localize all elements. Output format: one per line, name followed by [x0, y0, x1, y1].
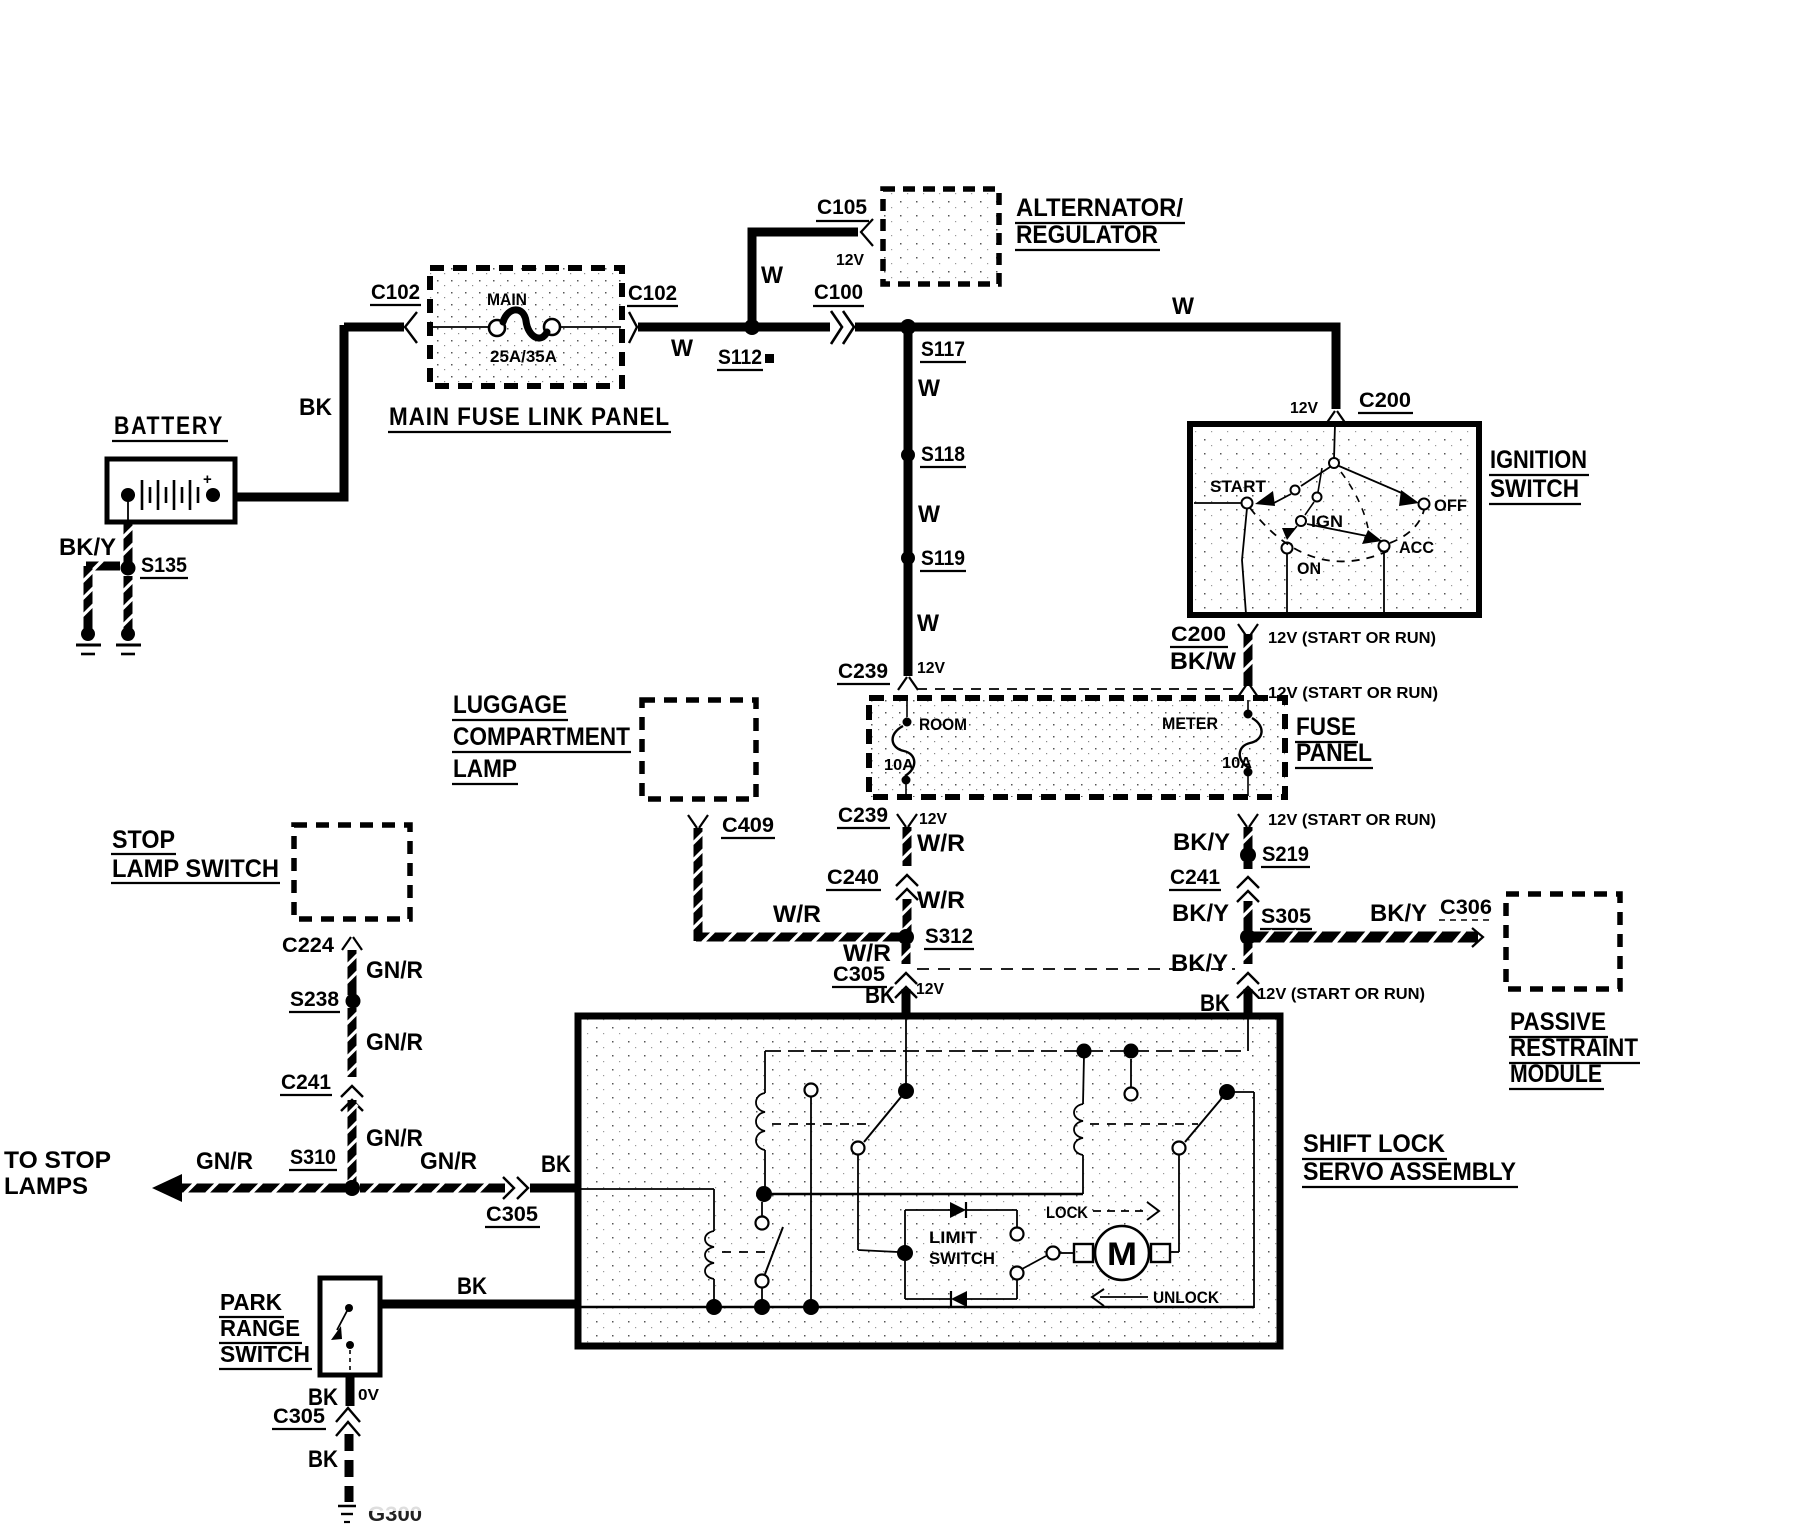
label 0V [358, 1387, 379, 1404]
label S312 [924, 925, 974, 949]
label C200 (lower) [1170, 623, 1228, 647]
svg-text:W: W [671, 335, 693, 362]
ground G300 [338, 1506, 356, 1522]
label MAIN (fuse name) [487, 290, 527, 309]
label BK/W [1170, 648, 1236, 675]
label BK (ground run) [308, 1446, 339, 1473]
splice S112 [744, 319, 760, 335]
svg-text:C102: C102 [371, 281, 420, 304]
label BK/Y [59, 534, 116, 561]
battery B1 [107, 459, 235, 522]
svg-text:BK/W: BK/W [1170, 648, 1236, 675]
label C409 [721, 814, 775, 838]
label C102 (right) [627, 282, 678, 306]
label S135 [140, 554, 188, 578]
svg-text:S219: S219 [1262, 843, 1309, 866]
svg-text:TO STOP: TO STOP [4, 1147, 111, 1174]
svg-text:C239: C239 [838, 804, 888, 827]
splice S118 [901, 448, 915, 462]
UNLOCK arrow [1092, 1288, 1220, 1307]
label C241 (right) [1169, 866, 1221, 890]
connector C239 (top) [898, 677, 918, 690]
label C102 (left) [370, 281, 421, 305]
svg-text:S119: S119 [921, 547, 965, 570]
label C239 (bottom) [837, 804, 890, 828]
connector C306 [1472, 928, 1483, 947]
wire BK dashed (C305 to G300) [345, 1434, 354, 1502]
label W/R (seg1) [917, 830, 965, 857]
svg-text:C241: C241 [1170, 866, 1220, 889]
svg-text:C306: C306 [1440, 896, 1492, 919]
svg-text:W/R: W/R [917, 830, 965, 857]
svg-text:C239: C239 [838, 660, 888, 683]
svg-text:PANEL: PANEL [1296, 739, 1372, 767]
svg-text:METER: METER [1162, 714, 1218, 733]
wire BK (C305 to servo box) [902, 989, 911, 1016]
label 25A/35A (fuse value) [490, 347, 557, 366]
svg-text:S118: S118 [921, 443, 965, 466]
label BK (middle col) [865, 982, 896, 1009]
label BK (below park switch) [308, 1384, 339, 1411]
svg-text:MODULE: MODULE [1510, 1060, 1602, 1088]
svg-text:FUSE: FUSE [1296, 713, 1356, 741]
wire W main run (fuse panel to S117) [638, 323, 912, 332]
ignition switch internals [1194, 424, 1467, 614]
ignition switch box [1190, 424, 1479, 615]
label 10A (meter) [1222, 755, 1252, 772]
svg-text:RESTRAINT: RESTRAINT [1510, 1034, 1638, 1062]
splice S238 [346, 994, 361, 1009]
label GN/R (seg1) [366, 957, 423, 984]
label C200 (top) [1358, 389, 1413, 413]
label W (seg1) [918, 375, 940, 402]
svg-text:BK: BK [308, 1446, 339, 1473]
shift lock servo assembly box [578, 1016, 1280, 1346]
connector C241 (left) [341, 1086, 363, 1111]
svg-text:START: START [1210, 477, 1267, 496]
splice S117 [900, 319, 916, 335]
wire GN/R (S238 to C241) [347, 1008, 358, 1077]
wire BK/Y battery to S135 [123, 522, 134, 562]
label C239 (top) [837, 660, 890, 684]
connector C305 (right col) [1237, 973, 1259, 998]
svg-text:W: W [761, 262, 783, 289]
servo internal: feed line right (from BK) [1247, 1019, 1249, 1051]
label C240 [826, 866, 881, 890]
svg-text:BK: BK [541, 1151, 572, 1178]
svg-text:10A: 10A [1222, 755, 1252, 772]
wire W branch to C105 [752, 232, 858, 323]
label BK/Y (seg3) [1171, 950, 1228, 977]
connector C305 (stop lamp run) [503, 1177, 528, 1199]
svg-text:GN/R: GN/R [366, 1125, 423, 1152]
svg-text:SWITCH: SWITCH [220, 1341, 310, 1367]
svg-text:IGNITION: IGNITION [1490, 446, 1587, 474]
svg-text:LIMIT: LIMIT [929, 1228, 978, 1247]
wire GN/R arrow to stop lamps [152, 1174, 345, 1202]
servo internal: horizontal wire coil1-coil3 [764, 1193, 1083, 1195]
svg-text:SWITCH: SWITCH [929, 1249, 995, 1268]
svg-text:MAIN: MAIN [487, 290, 527, 309]
connector C102 (left) [344, 312, 417, 343]
svg-text:BK: BK [865, 982, 896, 1009]
label FUSE PANEL [1295, 713, 1373, 768]
connector at fuse panel right output [1238, 814, 1258, 827]
wire W/R (S312 to C305) [901, 944, 912, 964]
park range switch internals [331, 1304, 354, 1374]
label W/R (seg2) [917, 887, 965, 914]
luggage compartment lamp box [642, 700, 756, 799]
junction rail/contact1 [803, 1299, 819, 1315]
wire W/R (C409 to S312) [693, 828, 901, 943]
label S310 [289, 1146, 337, 1170]
connector C305 (middle) [895, 973, 917, 998]
label C306 [1439, 896, 1492, 920]
svg-text:REGULATOR: REGULATOR [1016, 221, 1158, 249]
label BK/Y (seg2) [1172, 900, 1229, 927]
label STOP LAMP SWITCH [111, 826, 280, 883]
connector plane dashed line (C305 row) [917, 968, 1235, 970]
label S117 [920, 338, 966, 362]
svg-text:12V: 12V [917, 660, 945, 677]
wire BK/Y (S305 down) [1243, 944, 1254, 964]
alternator/regulator box [883, 189, 999, 284]
svg-text:W: W [918, 501, 940, 528]
label LUGGAGE COMPARTMENT LAMP [452, 691, 631, 784]
svg-text:BK: BK [299, 394, 333, 421]
wire BK/Y right ground branch [123, 576, 134, 630]
svg-text:UNLOCK: UNLOCK [1153, 1288, 1220, 1307]
svg-text:0V: 0V [358, 1387, 379, 1404]
junction rail/coil2 [706, 1299, 722, 1315]
connector C239 (bottom) [897, 814, 917, 827]
svg-text:LUGGAGE: LUGGAGE [453, 691, 567, 719]
label W (seg2) [918, 501, 940, 528]
svg-text:12V (START OR RUN): 12V (START OR RUN) [1257, 986, 1425, 1003]
label S119 [920, 547, 966, 571]
svg-text:C102: C102 [628, 282, 677, 305]
wire GN/R (C241 to S310) [347, 1100, 358, 1184]
relay1 mechanical link [772, 1123, 866, 1125]
park range switch box [320, 1278, 380, 1375]
svg-text:C100: C100 [814, 281, 863, 304]
splice S310 [344, 1180, 360, 1196]
label TO STOP LAMPS [4, 1147, 111, 1200]
label 12V (C239 bottom) [919, 811, 947, 828]
label GN/R (seg3) [366, 1125, 423, 1152]
connector C100 [831, 311, 854, 344]
splice S312 [898, 929, 914, 945]
svg-text:+: + [203, 471, 212, 488]
svg-text:S238: S238 [290, 988, 339, 1011]
label W (C105 branch) [761, 262, 783, 289]
label S305 [1260, 905, 1312, 929]
servo internal: top bus (dash-dot) [765, 1050, 1247, 1052]
label 12V (START OR RUN) upper [1268, 630, 1436, 647]
svg-text:BK/Y: BK/Y [1173, 829, 1230, 856]
label IGNITION SWITCH [1489, 446, 1589, 504]
relay2 mechanical link [722, 1251, 770, 1253]
switch 2 (lower relay contacts) [756, 1202, 784, 1307]
label BK/Y (seg1) [1173, 829, 1230, 856]
svg-text:BK/Y: BK/Y [1370, 900, 1427, 927]
label W/R (seg3) [843, 940, 891, 967]
label GN/R (arrow left) [196, 1148, 253, 1175]
switch 3 (right relay contacts) [1170, 1084, 1235, 1252]
LOCK arrow [1046, 1202, 1159, 1222]
svg-text:SHIFT LOCK: SHIFT LOCK [1303, 1130, 1445, 1158]
limit switch assembly [897, 1202, 1074, 1307]
wire BK (right col to servo box) [1244, 989, 1253, 1016]
relay coil 3 [1074, 1055, 1084, 1194]
wire BK (park switch down) [346, 1375, 355, 1406]
label S238 [289, 988, 340, 1012]
fuse METER 10A [1240, 700, 1262, 796]
label C105 [816, 196, 869, 221]
svg-text:12V: 12V [916, 981, 944, 998]
label W (seg3) [917, 610, 939, 637]
svg-text:12V: 12V [919, 811, 947, 828]
svg-text:ALTERNATOR/: ALTERNATOR/ [1016, 194, 1183, 222]
passive restraint module box [1506, 894, 1620, 989]
svg-text:GN/R: GN/R [196, 1148, 253, 1175]
relay3 mechanical link [1090, 1123, 1198, 1125]
label C305 (park switch) [272, 1405, 326, 1429]
relay coil 2 [581, 1189, 714, 1306]
svg-text:C200: C200 [1359, 389, 1411, 412]
connector C241 (right) [1237, 862, 1259, 902]
fuse ROOM 10A [893, 700, 915, 796]
svg-text:C305: C305 [486, 1203, 538, 1226]
svg-text:C224: C224 [282, 934, 334, 957]
svg-text:LAMP SWITCH: LAMP SWITCH [112, 855, 279, 883]
label BK/Y (to C306) [1370, 900, 1427, 927]
wire BK (C305 to servo box) [530, 1184, 582, 1193]
label 12V (START OR RUN) right col bottom [1257, 986, 1425, 1003]
svg-text:12V (START OR RUN): 12V (START OR RUN) [1268, 630, 1436, 647]
label BK (right col) [1200, 990, 1231, 1017]
label C305 (middle) [832, 963, 887, 987]
label GN/R (arrow right) [420, 1148, 477, 1175]
svg-text:12V (START OR RUN): 12V (START OR RUN) [1268, 812, 1436, 829]
svg-text:S305: S305 [1261, 905, 1311, 928]
junction coil1/horizontal [756, 1186, 772, 1202]
label C305 (stop lamp run) [485, 1203, 540, 1227]
svg-text:GN/R: GN/R [420, 1148, 477, 1175]
label 12V (START OR RUN) right col top [1268, 812, 1436, 829]
svg-text:GN/R: GN/R [366, 1029, 423, 1056]
svg-text:BATTERY: BATTERY [114, 412, 224, 440]
svg-text:W/R: W/R [773, 901, 821, 928]
svg-text:PARK: PARK [220, 1289, 282, 1315]
svg-text:MAIN FUSE LINK PANEL: MAIN FUSE LINK PANEL [389, 403, 670, 431]
label C100 [813, 281, 864, 306]
wire BK/Y (to S219) [1243, 827, 1254, 849]
label ROOM [919, 715, 967, 734]
svg-text:S112: S112 [718, 346, 762, 369]
label SHIFT LOCK SERVO ASSEMBLY [1302, 1130, 1518, 1187]
connector C105 [861, 219, 873, 246]
svg-text:S312: S312 [925, 925, 973, 948]
svg-text:C241: C241 [281, 1071, 331, 1094]
svg-text:W: W [917, 610, 939, 637]
svg-text:W/R: W/R [917, 887, 965, 914]
splice S305 [1240, 929, 1256, 945]
label W (top right run) [1172, 293, 1194, 320]
servo internal: junction bus/contact3 [1124, 1044, 1139, 1059]
label S118 [920, 443, 966, 467]
wire GN/R (C224 to S238) [347, 950, 358, 995]
svg-text:S310: S310 [290, 1146, 336, 1169]
switch 1 (left relay contacts) [852, 1083, 915, 1252]
servo internal: right return wire [1234, 1092, 1254, 1308]
ground (left) [76, 627, 101, 654]
svg-text:OFF: OFF [1434, 496, 1467, 515]
wire W/R (C240 to S312) [902, 899, 913, 932]
label S219 [1261, 843, 1310, 867]
svg-text:LAMPS: LAMPS [4, 1173, 88, 1200]
wire BK (park switch to servo box) [380, 1300, 582, 1309]
label 12V (C239 top) [917, 660, 945, 677]
label 12V (START OR RUN) lower [1268, 685, 1438, 702]
label PASSIVE RESTRAINT MODULE [1509, 1008, 1640, 1089]
main fuse link panel box [430, 268, 622, 386]
svg-text:25A/35A: 25A/35A [490, 347, 557, 366]
connector C200 (top, 12V) [1326, 411, 1346, 424]
wire GN/R (S310 to C305) [360, 1183, 505, 1194]
svg-text:BK: BK [457, 1273, 488, 1300]
svg-text:BK/Y: BK/Y [1172, 900, 1229, 927]
connector C409 [688, 815, 708, 828]
svg-text:ROOM: ROOM [919, 715, 967, 734]
label BATTERY [112, 412, 228, 441]
motor M [1074, 1226, 1170, 1280]
label 10A (room) [884, 757, 914, 774]
ground (right) [116, 627, 141, 654]
label 12V (C105) [836, 252, 864, 269]
svg-text:W: W [918, 375, 940, 402]
connector C240 [896, 875, 918, 900]
svg-text:LAMP: LAMP [453, 755, 517, 783]
wire W vertical (S117 to C239) [904, 331, 913, 676]
svg-text:ON: ON [1297, 559, 1321, 578]
label GN/R (seg2) [366, 1029, 423, 1056]
svg-text:BK/Y: BK/Y [59, 534, 116, 561]
svg-text:12V (START OR RUN): 12V (START OR RUN) [1268, 685, 1438, 702]
svg-text:10A: 10A [884, 757, 914, 774]
label PARK RANGE SWITCH [219, 1289, 312, 1369]
label BK (park switch right) [457, 1273, 488, 1300]
label METER [1162, 714, 1218, 733]
label C224 [282, 934, 334, 957]
svg-text:C105: C105 [817, 196, 867, 219]
wire W main run (S117 to ignition switch) [908, 327, 1336, 409]
servo internal: bottom rail [581, 1306, 1254, 1308]
label MAIN FUSE LINK PANEL [388, 403, 671, 432]
label S112 [717, 346, 774, 370]
label 12V (middle col) [916, 981, 944, 998]
svg-text:C200: C200 [1171, 623, 1226, 646]
svg-text:SERVO ASSEMBLY: SERVO ASSEMBLY [1303, 1158, 1516, 1186]
svg-text:GN/R: GN/R [366, 957, 423, 984]
stop lamp switch box [294, 825, 410, 919]
junction rail/switch2 [754, 1299, 770, 1315]
wire BK battery to main feed [233, 325, 344, 497]
svg-text:LOCK: LOCK [1046, 1203, 1089, 1222]
label 12V (C200 top) [1290, 400, 1318, 417]
svg-text:PASSIVE: PASSIVE [1510, 1008, 1606, 1036]
connector C102 (right) [629, 312, 637, 343]
connector C305 (park switch) [336, 1408, 360, 1436]
servo internal: junction bus/coil3 [1077, 1044, 1092, 1059]
svg-text:ACC: ACC [1399, 538, 1434, 557]
label BK [299, 394, 333, 421]
wire BK/Y (C241 to S305) [1243, 901, 1254, 930]
servo internal: feed line left (from BK) [905, 1019, 907, 1086]
label LIMIT SWITCH [929, 1228, 995, 1268]
wire BK/Y left ground branch [83, 561, 121, 631]
connector plane dashed line (C239/C200) [917, 688, 1236, 690]
splice S135 [121, 561, 136, 576]
svg-text:W: W [1172, 293, 1194, 320]
label C241 (left) [280, 1071, 332, 1095]
fuse MAIN 25A/35A [431, 310, 621, 338]
switch 1 stationary contact to rail [805, 1084, 818, 1308]
svg-text:COMPARTMENT: COMPARTMENT [453, 723, 630, 751]
label G300 [360, 1498, 430, 1526]
label W (after fuse box) [671, 335, 693, 362]
fuse panel box [869, 698, 1285, 797]
label ALTERNATOR/ REGULATOR [1015, 194, 1185, 250]
svg-text:C240: C240 [827, 866, 879, 889]
switch 3 stationary contact [1125, 1059, 1138, 1101]
label BK (into servo box left) [541, 1151, 572, 1178]
relay coil 1 [756, 1051, 765, 1190]
label W/R (luggage run) [773, 901, 821, 928]
splice S219 [1240, 847, 1256, 863]
svg-text:C305: C305 [273, 1405, 325, 1428]
connector C224 [342, 937, 362, 950]
svg-text:S117: S117 [921, 338, 965, 361]
svg-text:SWITCH: SWITCH [1490, 475, 1579, 503]
svg-text:12V: 12V [1290, 400, 1318, 417]
svg-text:BK/Y: BK/Y [1171, 950, 1228, 977]
svg-text:IGN: IGN [1311, 512, 1343, 531]
svg-text:C409: C409 [722, 814, 774, 837]
wire BK/Y (S305 to C306) [1254, 931, 1478, 944]
connector C200 (lower) with BK/W wire [1238, 624, 1258, 697]
svg-text:RANGE: RANGE [220, 1315, 300, 1341]
wire W/R (C239 to C240) [902, 827, 913, 866]
splice S119 [901, 551, 915, 565]
svg-text:STOP: STOP [112, 826, 175, 854]
svg-text:12V: 12V [836, 252, 864, 269]
svg-text:S135: S135 [141, 554, 187, 577]
svg-text:M: M [1107, 1236, 1137, 1272]
